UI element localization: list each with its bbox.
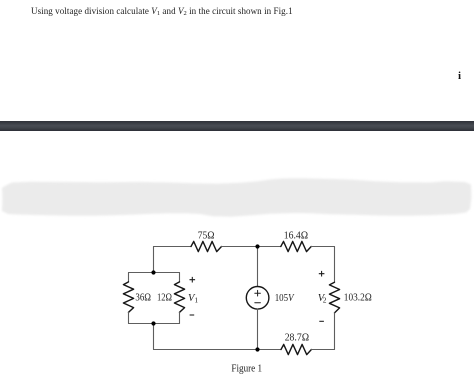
wire bottom rail right bbox=[311, 349, 334, 351]
resistor R 75ohm bbox=[191, 241, 222, 251]
wire bottom rail left bbox=[154, 349, 282, 351]
wire subloop top bbox=[129, 272, 180, 274]
problem text bbox=[31, 6, 293, 16]
wire left vertical lower bbox=[153, 324, 155, 350]
wire left vertical upper bbox=[153, 247, 155, 273]
svg-text:2: 2 bbox=[323, 295, 327, 304]
node dot top middle bbox=[255, 244, 259, 248]
wire subloop right lower bbox=[179, 312, 181, 323]
label V1 minus bbox=[190, 314, 195, 316]
resistor R 16.4ohm bbox=[281, 241, 311, 251]
wire subloop left upper bbox=[128, 273, 130, 282]
resistor R 103.2ohm bbox=[329, 282, 339, 313]
resistor R 36ohm bbox=[123, 282, 133, 312]
label V1 plus bbox=[190, 277, 196, 283]
svg-text:28.7Ω: 28.7Ω bbox=[285, 333, 310, 344]
svg-text:16.4Ω: 16.4Ω bbox=[284, 230, 308, 241]
page marker i bbox=[458, 70, 461, 82]
wire right vertical upper bbox=[334, 247, 336, 283]
svg-text:36Ω: 36Ω bbox=[135, 293, 151, 304]
label V2 minus bbox=[319, 320, 324, 322]
wire top rail left bbox=[154, 246, 192, 248]
wire middle branch lower bbox=[257, 309, 259, 349]
node dot bottom middle bbox=[255, 347, 259, 351]
wire right vertical lower bbox=[334, 313, 336, 350]
dark divider bar bbox=[0, 121, 474, 131]
wire subloop bottom bbox=[129, 323, 180, 325]
grey highlight smudge band bbox=[0, 0, 1, 1]
node dot subloop bottom bbox=[151, 321, 155, 325]
node dot subloop top bbox=[151, 270, 155, 274]
wire middle branch upper bbox=[257, 247, 259, 287]
wire top rail right bbox=[311, 246, 334, 248]
svg-text:12Ω: 12Ω bbox=[157, 292, 172, 303]
source polarity minus bbox=[255, 302, 261, 304]
voltage source V 105V bbox=[246, 287, 269, 310]
wire subloop left lower bbox=[128, 312, 130, 323]
source polarity plus bbox=[255, 290, 261, 296]
svg-text:75Ω: 75Ω bbox=[198, 230, 215, 241]
svg-text:105V: 105V bbox=[275, 293, 295, 304]
wire top rail middle bbox=[222, 246, 281, 248]
svg-text:1: 1 bbox=[194, 295, 198, 304]
resistor R 12ohm bbox=[174, 282, 184, 312]
svg-text:103.2Ω: 103.2Ω bbox=[344, 293, 372, 304]
resistor R 28.7ohm bbox=[281, 344, 311, 354]
svg-text:Figure 1: Figure 1 bbox=[231, 363, 262, 374]
label V2 plus bbox=[319, 271, 325, 277]
wire subloop right upper bbox=[179, 273, 181, 282]
